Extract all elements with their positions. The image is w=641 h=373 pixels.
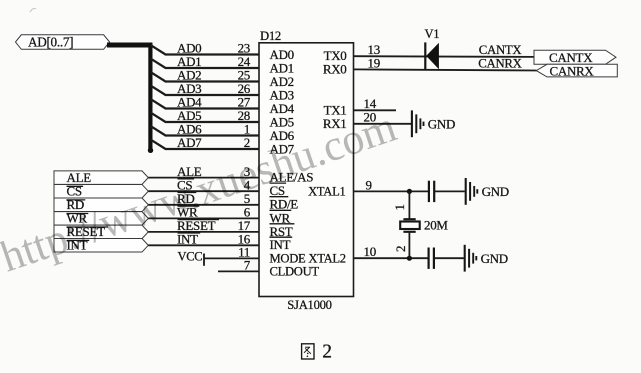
svg-text:19: 19: [368, 55, 380, 70]
port WR: [54, 211, 148, 226]
svg-text:XTAL1: XTAL1: [308, 185, 345, 199]
svg-text:9: 9: [366, 177, 372, 192]
wire cap to GND (XTAL1): [434, 190, 465, 192]
port INT: [54, 238, 148, 253]
capacitor C (XTAL2): [429, 248, 434, 269]
wire AD6 (pin 1): [151, 122, 259, 137]
svg-text:RX0: RX0: [323, 62, 347, 77]
crystal 20M: [400, 218, 448, 233]
diode V1: [425, 27, 440, 69]
port RD: [54, 197, 148, 212]
wire RD (pin 5): [148, 191, 259, 206]
svg-text:CANTX: CANTX: [479, 43, 523, 57]
wire XTAL2 (pin 10): [354, 244, 429, 259]
wire WR (pin 6): [148, 205, 259, 220]
wire RX0 (pin 19) to CANRX: [354, 55, 537, 70]
wire AD4 (pin 27): [151, 95, 259, 110]
wire AD2 (pin 25): [151, 68, 259, 83]
svg-text:1: 1: [392, 204, 407, 210]
net VCC: [178, 250, 205, 266]
junction node (XTAL2): [407, 256, 412, 261]
junction node (XTAL1): [407, 189, 412, 194]
port CS: [54, 184, 148, 199]
svg-text:MODE: MODE: [270, 251, 306, 265]
wire AD1 (pin 24): [151, 54, 259, 69]
wire XTAL1 (pin 9): [354, 177, 429, 192]
port RESET: [54, 224, 148, 239]
svg-text:XTAL2: XTAL2: [308, 251, 345, 265]
svg-text:INT: INT: [270, 237, 291, 252]
wire VCC to MODE (pin 11): [204, 245, 259, 260]
wire TX1 stub (pin 14): [354, 96, 397, 111]
svg-text:CANRX: CANRX: [478, 57, 522, 71]
svg-text:AD[0..7]: AD[0..7]: [28, 34, 73, 49]
wire AD3 (pin 26): [151, 81, 259, 96]
bus AD[0..7]: [107, 43, 153, 153]
ground GND (XTAL1): [466, 178, 509, 205]
wire AD5 (pin 28): [151, 108, 259, 123]
op-chip U D12 SJA1000: [259, 29, 354, 312]
svg-text:INT: INT: [177, 232, 198, 247]
svg-text:20M: 20M: [424, 218, 448, 233]
caption 图 2: [302, 344, 314, 359]
svg-text:SJA1000: SJA1000: [287, 298, 331, 312]
capacitor C (XTAL1): [429, 181, 434, 202]
wire AD0 (pin 23): [151, 41, 259, 56]
ground GND (XTAL2): [465, 245, 508, 272]
svg-text:2: 2: [393, 246, 408, 252]
wire crystal pin 2 to XTAL2 junction: [408, 232, 410, 259]
wire cap to GND (XTAL2): [434, 257, 464, 259]
scan speck: [30, 8, 36, 12]
wire AD7 (pin 2): [151, 135, 259, 150]
wire TX0 (pin 13) to CANTX: [354, 42, 535, 57]
wire ALE (pin 3): [148, 164, 259, 179]
svg-text:V1: V1: [425, 27, 440, 41]
svg-text:VCC: VCC: [178, 250, 203, 264]
svg-text:CANRX: CANRX: [550, 63, 595, 78]
port AD[0..7]: [16, 34, 110, 49]
svg-text:7: 7: [244, 258, 251, 273]
port CANRX: [536, 63, 617, 78]
wire CS (pin 4): [148, 177, 259, 192]
svg-text:CLDOUT: CLDOUT: [270, 264, 320, 278]
svg-text:2: 2: [322, 342, 331, 363]
ground GND (RX1): [412, 110, 455, 137]
wire CLDOUT stub (pin 7): [218, 258, 260, 273]
wire RX1 (pin 20) to GND: [354, 110, 412, 125]
wire RESET (pin 17): [148, 218, 259, 233]
svg-text:10: 10: [364, 244, 376, 259]
wire INT (pin 16): [148, 232, 259, 247]
port CANTX: [534, 50, 616, 65]
port ALE: [54, 170, 148, 185]
svg-text:AD7: AD7: [177, 135, 202, 150]
svg-text:D12: D12: [260, 29, 281, 43]
wire XTAL1 junction to crystal pin 1: [408, 191, 410, 219]
